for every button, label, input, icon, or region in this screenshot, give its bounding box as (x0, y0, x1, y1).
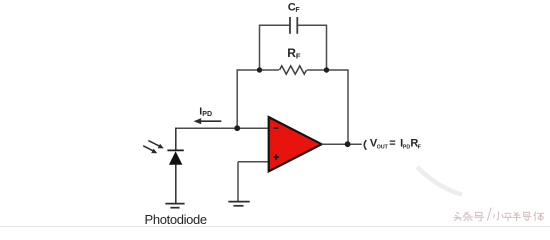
label RF (287, 46, 301, 61)
wire: capacitor right leg (326, 25, 328, 71)
label Photodiode (145, 212, 207, 227)
wire: feedback line right segment (307, 69, 348, 71)
junction: capacitor left tap (257, 67, 262, 72)
resistor RF (280, 66, 307, 74)
junction: output node (345, 141, 351, 147)
wire: feedback right leg down to output node (347, 69, 349, 144)
bottom edge line (0, 226, 550, 227)
wire: output line (322, 143, 362, 145)
wire: capacitor left leg (259, 25, 261, 71)
label CF (288, 1, 301, 14)
wire: inverting input node line (176, 127, 269, 129)
wire: non-inverting input line (238, 161, 269, 163)
ground (photodiode) (165, 204, 184, 208)
label IPD (199, 106, 212, 119)
label VOUT = IPD RF (370, 138, 422, 151)
light arrow 1 (148, 141, 163, 149)
wire: photodiode top leg (175, 128, 177, 151)
wire: feedback line left segment (237, 69, 279, 71)
light arrow 2 (143, 146, 157, 154)
photodiode D1 (167, 150, 183, 164)
svg-text:IPD: IPD (199, 106, 212, 119)
wire: capacitor branch top-left (260, 24, 291, 26)
ground (op-amp non-inverting input) (228, 202, 249, 206)
svg-text:RF: RF (287, 46, 301, 61)
wire: feedback left leg down to input node (236, 69, 238, 128)
wire: capacitor branch top-right (298, 24, 327, 26)
wire: photodiode bottom leg (175, 164, 177, 203)
svg-text:CF: CF (288, 1, 301, 14)
junction: inverting input node (234, 125, 240, 131)
wire: non-inverting leg down to ground (237, 162, 239, 202)
output terminal (364, 140, 366, 150)
svg-text:VOUT=IPDRF: VOUT=IPDRF (370, 138, 422, 151)
current arrow IPD (194, 118, 222, 124)
op-amp U1 (269, 117, 322, 171)
svg-text:Photodiode: Photodiode (145, 212, 207, 227)
watermark text 头条号 / 小辛半导体 (454, 208, 544, 221)
watermark arc (faint logo remnant) (417, 167, 462, 195)
junction: capacitor right tap (324, 67, 329, 72)
capacitor CF (290, 17, 297, 34)
